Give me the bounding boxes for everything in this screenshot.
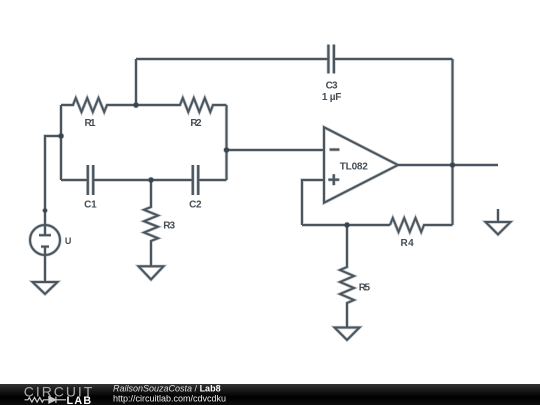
wire noninverting input loop [302,180,324,225]
wire right rail C3 to output node [452,59,454,165]
wire top feedback right [335,58,453,60]
node dot source terminal [43,208,47,212]
node dot R1-R2 top junction [133,102,138,107]
op-amp U1 TL082 [324,127,398,203]
wire output [398,164,498,166]
resistor R5 [340,225,354,328]
wire source to ground [44,255,46,282]
wire bottom feedback left [302,224,390,226]
svg-text:R4: R4 [401,238,415,249]
capacitor C3 [328,45,334,74]
svg-text:RailsonSouzaCosta / Lab8: RailsonSouzaCosta / Lab8 [113,384,221,394]
svg-text:R2: R2 [190,118,202,129]
node dot output junction [450,162,455,167]
resistor R3 [144,180,158,266]
wire left rail [60,105,62,180]
node dot R5 junction [344,222,349,227]
svg-text:TL082: TL082 [340,161,368,172]
wire branch to source [45,136,61,225]
wire right rail of twin-T [226,105,228,180]
svg-text:R5: R5 [359,282,371,293]
svg-text:1 µF: 1 µF [322,92,341,103]
ground G3 (R5) [335,328,360,341]
svg-text:R1: R1 [85,118,96,129]
node dot inverting input junction [224,147,229,152]
svg-text:C2: C2 [189,200,202,211]
svg-text:LAB: LAB [67,395,93,405]
svg-text:http://circuitlab.com/cdvcdku: http://circuitlab.com/cdvcdku [113,394,226,404]
wire top node down to R1-R2 junction [135,59,137,105]
ground G1 (source) [33,282,58,294]
resistor R4 [390,218,453,232]
svg-text:U: U [65,236,72,246]
resistor R1 [61,98,136,112]
resistor R2 [136,98,227,112]
capacitor C2 [193,165,198,195]
svg-text:C1: C1 [84,200,97,211]
voltage source U [30,225,60,255]
svg-text:C3: C3 [326,80,338,91]
wire top feedback left [136,58,328,60]
ground G2 (R3) [139,266,164,279]
node dot R3 junction [148,177,153,182]
capacitor C1 [88,165,93,195]
svg-text:R3: R3 [163,221,175,232]
wire node to inverting input [227,149,325,151]
ground G4 (floating) [486,209,511,235]
wire bottom left to C1 [61,179,88,181]
wire C1 to C2 [93,179,193,181]
wire C2 to right rail [198,179,226,181]
footer bar [0,384,540,405]
wire output node down to R4 [452,165,454,225]
node dot left rail source branch [58,133,63,138]
footer logo schematic icon [25,397,67,403]
